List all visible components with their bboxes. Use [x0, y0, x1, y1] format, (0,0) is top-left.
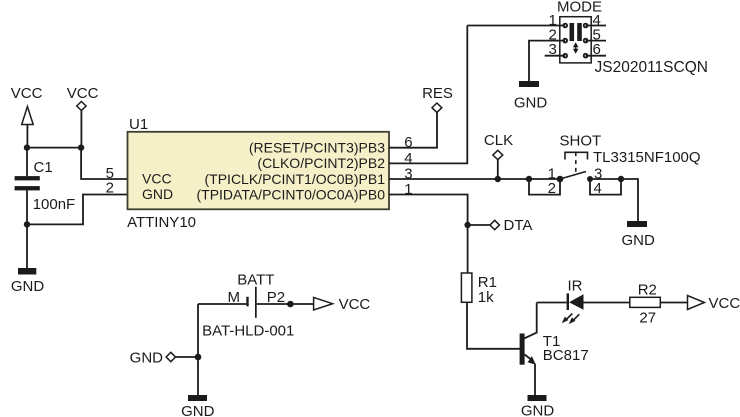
wire emitter: [534, 364, 536, 395]
wire: [176, 356, 199, 358]
svg-text:DTA: DTA: [504, 217, 533, 234]
testpoint VCC (diamond): [67, 85, 99, 111]
svg-text:JS202011SCQN: JS202011SCQN: [595, 59, 708, 76]
svg-text:RES: RES: [422, 85, 453, 102]
svg-text:IR: IR: [568, 277, 583, 294]
pin 3 wire: [389, 178, 560, 180]
pin 4 wire: [389, 26, 467, 164]
wire: [537, 302, 567, 304]
svg-text:27: 27: [639, 310, 656, 327]
svg-text:VCC: VCC: [142, 171, 172, 187]
svg-text:VCC: VCC: [339, 296, 371, 313]
svg-text:ATTINY10: ATTINY10: [127, 214, 196, 231]
svg-text:GND: GND: [11, 278, 45, 295]
node junction: [464, 222, 470, 228]
switch contact: [557, 176, 564, 183]
svg-text:2: 2: [548, 180, 556, 197]
capacitor C1: [15, 159, 76, 213]
svg-text:VCC: VCC: [709, 295, 740, 312]
svg-text:GND: GND: [521, 403, 555, 417]
wire: [468, 224, 490, 226]
svg-text:GND: GND: [514, 95, 548, 112]
wire: [584, 302, 630, 304]
wire: [27, 195, 128, 225]
switch S MODE JS202011SCQN: [557, 0, 708, 76]
wire: [197, 357, 199, 395]
svg-text:(RESET/PCINT3)PB3: (RESET/PCINT3)PB3: [249, 140, 385, 156]
svg-text:GND: GND: [142, 186, 173, 202]
svg-text:1: 1: [404, 181, 412, 198]
svg-text:U1: U1: [129, 116, 148, 133]
svg-text:GND: GND: [181, 403, 215, 417]
wire loop pins 3-4: [590, 179, 621, 195]
svg-text:3: 3: [404, 165, 412, 182]
transistor Q T1 BC817: [520, 333, 589, 365]
svg-text:100nF: 100nF: [33, 196, 76, 213]
svg-text:4: 4: [404, 150, 412, 167]
wire MODE pin5 stub: [586, 40, 606, 42]
svg-text:(CLKO/PCINT2)PB2: (CLKO/PCINT2)PB2: [257, 155, 385, 171]
svg-text:(TPIDATA/PCINT0/OC0A)PB0: (TPIDATA/PCINT0/OC0A)PB0: [196, 186, 385, 202]
svg-text:BATT: BATT: [237, 272, 274, 289]
wire: [467, 225, 469, 273]
wire: [27, 147, 81, 149]
wire: [467, 302, 520, 349]
power flag VCC (battery): [314, 296, 371, 313]
ground: [514, 81, 548, 112]
node junction: [24, 221, 30, 227]
wire: [26, 190, 28, 224]
svg-text:CLK: CLK: [484, 132, 513, 149]
svg-text:6: 6: [404, 134, 412, 151]
wire: [257, 303, 314, 305]
switch contact: [587, 176, 593, 182]
power flag VCC (right): [688, 295, 740, 312]
wire: [81, 148, 127, 179]
wire MODE pin1: [467, 25, 565, 27]
node junction: [618, 176, 624, 182]
switch SHOT TL3315NF100Q: [560, 133, 701, 180]
ground: [11, 268, 45, 295]
svg-text:1k: 1k: [478, 289, 494, 306]
power flag VCC (top-left): [11, 85, 43, 125]
svg-text:GND: GND: [622, 232, 656, 249]
wire: [80, 111, 82, 148]
svg-text:TL3315NF100Q: TL3315NF100Q: [593, 149, 701, 166]
svg-text:R2: R2: [638, 282, 657, 299]
battery BATT BAT-HLD-001: [202, 272, 294, 340]
LED IR: [562, 277, 584, 324]
wire loop pins 1-2: [529, 179, 560, 195]
wire MODE pin2: [529, 41, 565, 81]
resistor R2 27: [630, 282, 661, 327]
wire MODE pin3 stub: [545, 55, 566, 57]
op-amp U1 ATTINY10 body: [127, 116, 389, 231]
svg-text:VCC: VCC: [67, 85, 99, 102]
node junction: [495, 176, 501, 182]
svg-text:GND: GND: [130, 350, 164, 367]
ground: [181, 395, 215, 417]
node junction: [526, 176, 532, 182]
svg-text:BAT-HLD-001: BAT-HLD-001: [202, 323, 294, 340]
testpoint GND (diamond): [130, 350, 176, 367]
pin 1 wire: [389, 195, 468, 226]
wire: [197, 304, 199, 357]
wire collector: [536, 303, 538, 334]
wire: [26, 125, 28, 148]
testpoint DTA: [490, 217, 532, 234]
svg-text:2: 2: [106, 180, 114, 197]
node junction: [24, 144, 30, 150]
ground: [622, 221, 656, 249]
svg-text:(TPICLK/PCINT1/OC0B)PB1: (TPICLK/PCINT1/OC0B)PB1: [205, 171, 386, 187]
node junction: [78, 144, 84, 150]
wire MODE pin4 stub: [586, 25, 606, 27]
wire: [26, 224, 28, 268]
wire: [198, 303, 246, 305]
wire MODE pin6 stub: [586, 55, 606, 57]
testpoint RES: [422, 85, 453, 112]
wire: [590, 179, 638, 221]
svg-text:VCC: VCC: [11, 85, 43, 102]
svg-text:SHOT: SHOT: [560, 133, 602, 150]
svg-text:C1: C1: [34, 159, 53, 176]
wire: [26, 148, 28, 177]
svg-text:BC817: BC817: [543, 347, 589, 364]
node junction: [287, 301, 294, 308]
wire: [660, 302, 687, 304]
node junction: [195, 354, 202, 361]
resistor R1 1k: [461, 273, 497, 306]
ground: [521, 395, 555, 417]
testpoint CLK: [484, 132, 513, 160]
wire: [497, 160, 499, 179]
pin 6 wire: [389, 113, 437, 148]
